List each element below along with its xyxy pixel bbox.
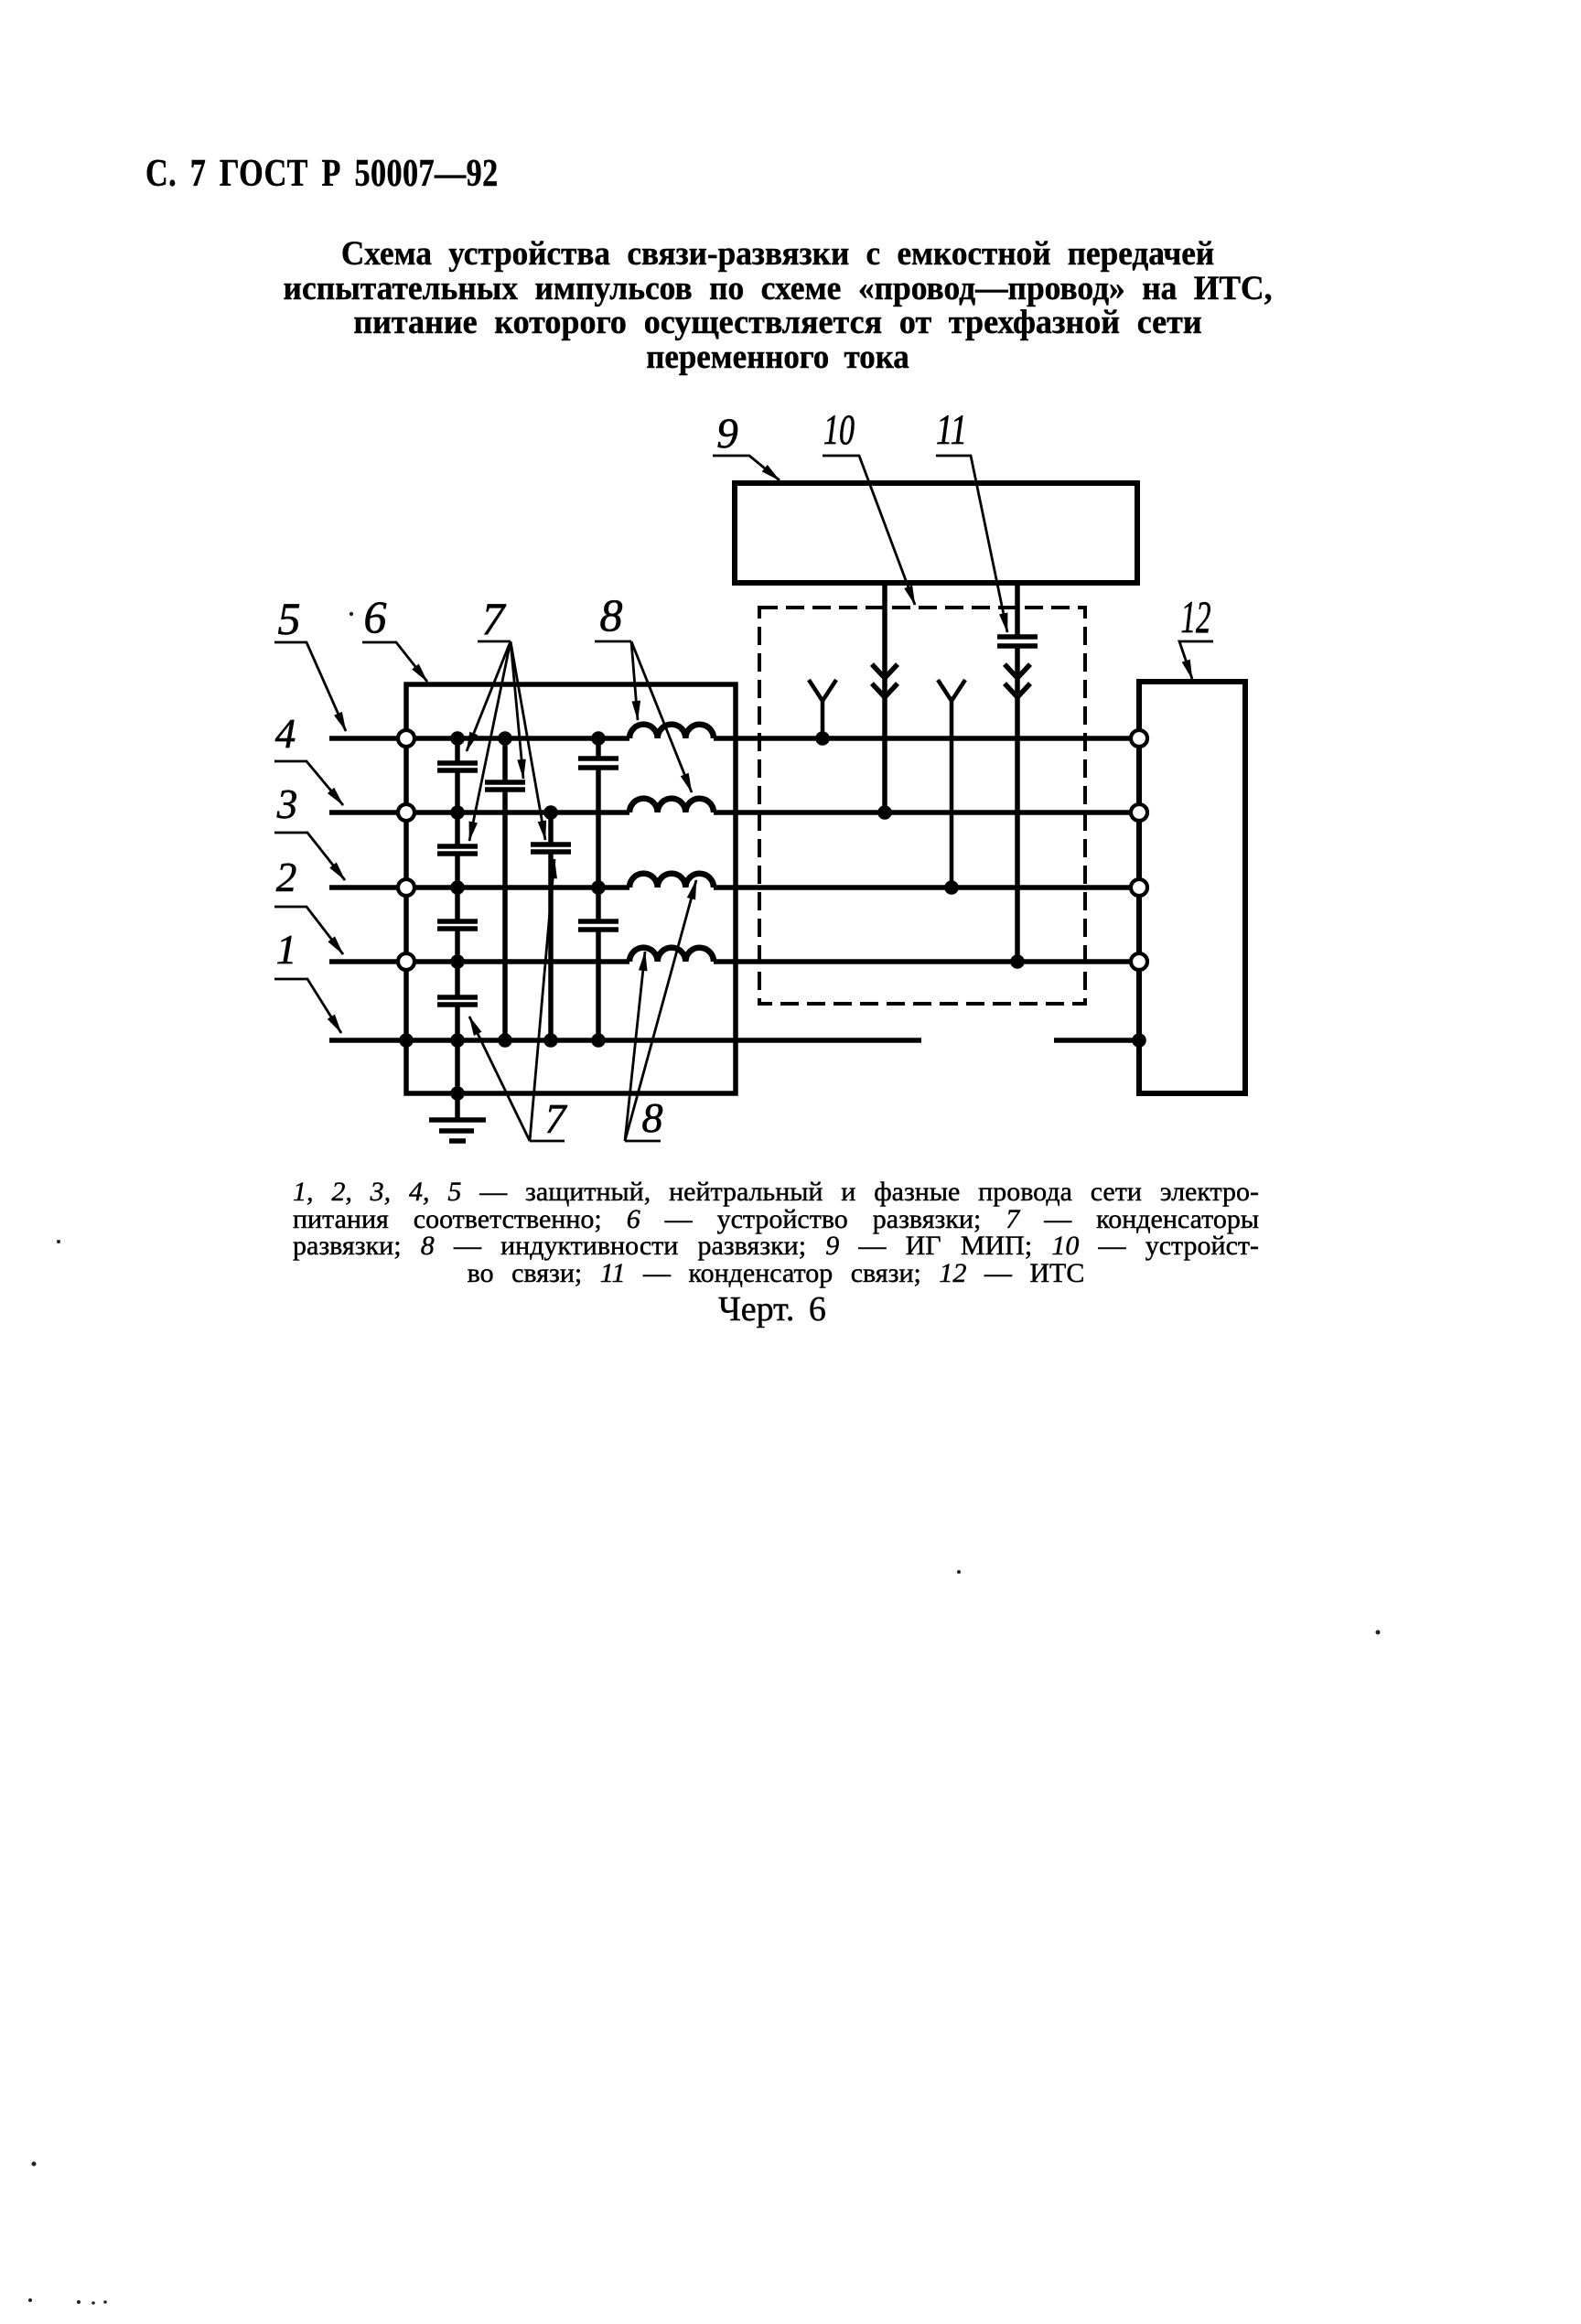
svg-text:2: 2 — [276, 855, 297, 900]
svg-text:7: 7 — [482, 593, 507, 644]
svg-text:12: 12 — [1181, 591, 1211, 642]
svg-text:3: 3 — [276, 781, 298, 827]
svg-text:9: 9 — [716, 410, 738, 457]
svg-text:6: 6 — [364, 591, 387, 642]
svg-text:11: 11 — [936, 406, 967, 454]
svg-text:8: 8 — [642, 1094, 663, 1141]
svg-text:5: 5 — [278, 593, 301, 644]
svg-text:8: 8 — [600, 589, 623, 640]
svg-text:10: 10 — [823, 406, 855, 454]
svg-text:1: 1 — [276, 927, 297, 973]
svg-text:7: 7 — [545, 1095, 568, 1142]
svg-text:4: 4 — [275, 711, 296, 757]
